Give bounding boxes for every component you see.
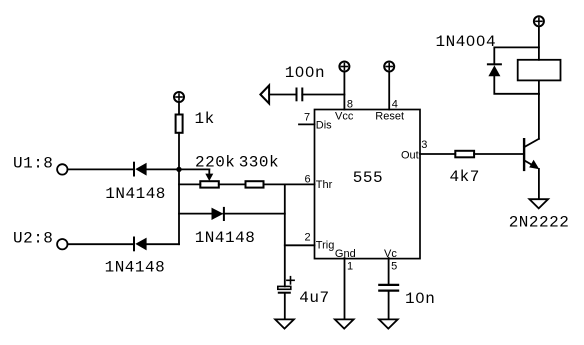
svg-text:1N4148: 1N4148 — [105, 259, 166, 277]
wire Q1 emitter to ground — [538, 169, 540, 199]
connector U2:8 terminal — [57, 239, 67, 249]
wire U2 row left of diode D2 — [179, 213, 211, 215]
wire vertical node A down to U2 row — [178, 169, 180, 244]
svg-text:8: 8 — [347, 99, 353, 111]
svg-text:4k7: 4k7 — [450, 168, 480, 186]
connector U1:8 terminal — [57, 164, 67, 174]
connector arrow input — [260, 85, 269, 103]
svg-text:Reset: Reset — [375, 111, 404, 123]
power symbol VCC2 — [339, 62, 349, 72]
wire D4 bottom — [494, 76, 539, 94]
wire pin 5 Vc to C3 — [388, 258, 390, 284]
svg-text:7: 7 — [304, 112, 310, 124]
wire pin 3 Out to 4k7 — [420, 153, 455, 155]
svg-text:U2:8: U2:8 — [13, 229, 53, 247]
wire D2 to vertical net — [224, 213, 285, 215]
svg-text:1N4148: 1N4148 — [105, 185, 166, 203]
svg-text:330k: 330k — [239, 153, 279, 171]
svg-text:3: 3 — [421, 139, 427, 151]
diode D4 1N4004 — [488, 64, 501, 76]
svg-text:Dis: Dis — [316, 120, 332, 132]
resistor 1k — [176, 115, 183, 133]
power symbol VCC1 — [174, 92, 184, 102]
svg-text:U1:8: U1:8 — [13, 155, 53, 173]
svg-text:Thr: Thr — [316, 179, 333, 191]
svg-text:1N4004: 1N4004 — [436, 33, 497, 51]
svg-text:Out: Out — [401, 150, 419, 162]
svg-text:4u7: 4u7 — [299, 289, 329, 307]
wire U1 input to diode D1 — [68, 168, 134, 170]
wire 4k7 to Q1 base — [474, 153, 523, 155]
ground GND2 — [529, 199, 548, 208]
diode D3 1N4148 — [134, 238, 147, 251]
ground GND1 — [275, 319, 294, 328]
diode D2 1N4148 — [212, 208, 224, 220]
power symbol VCC3 — [384, 62, 394, 72]
potentiometer 220k body — [200, 181, 219, 187]
diode D1 1N4148 — [134, 163, 147, 176]
wire D3 to vertical line corner — [147, 243, 179, 245]
glyph whiteout patches for plain zeros — [298, 39, 482, 300]
power symbol VCC4 — [534, 16, 544, 26]
wire relay top to VCC4 — [538, 27, 540, 60]
wire 1k to node A — [178, 133, 180, 170]
resistor 330k — [246, 181, 264, 187]
wire vertical net Thr/Trig x=284.8 — [284, 184, 286, 286]
wire 330k to pin 6 Thr — [264, 183, 315, 185]
wire Trig pin 2 — [285, 244, 315, 246]
wire VCC3 to pin 4 — [388, 72, 390, 109]
svg-text:1N4148: 1N4148 — [195, 229, 256, 247]
svg-text:2N2222: 2N2222 — [509, 214, 570, 232]
wire VCC2 to pin 8 — [343, 72, 345, 109]
svg-text:1: 1 — [347, 261, 353, 273]
wire C1 to ground — [284, 294, 286, 319]
potentiometer 220k wiper — [205, 169, 213, 181]
capacitor C3 10n — [379, 285, 398, 291]
wire relay bottom node — [538, 80, 540, 94]
wire pot to 330k — [219, 183, 246, 185]
wire C2 to Vcc net — [302, 94, 344, 96]
transistor Q1 2N2222 — [524, 139, 539, 170]
svg-text:Vcc: Vcc — [335, 111, 354, 123]
svg-text:1k: 1k — [195, 110, 215, 128]
wire to pot left — [179, 183, 200, 185]
svg-text:Trig: Trig — [316, 239, 335, 251]
wire arrow to C2 — [269, 94, 296, 96]
wire D1 to node A — [147, 168, 179, 170]
wire U2 input to diode D3 — [68, 243, 134, 245]
capacitor C1 4u7 polarized — [278, 277, 294, 294]
svg-text:2: 2 — [305, 232, 311, 244]
wire pin 1 Gnd to ground — [344, 258, 346, 319]
ground GND3 — [335, 319, 354, 328]
relay coil K1 — [518, 60, 561, 81]
svg-text:6: 6 — [305, 173, 311, 185]
capacitor C2 100n — [297, 89, 303, 101]
wire C3 to ground — [388, 291, 390, 319]
svg-text:5: 5 — [391, 261, 397, 273]
svg-text:4: 4 — [392, 99, 398, 111]
svg-text:555: 555 — [353, 169, 383, 187]
IC U3 555 box — [315, 110, 421, 259]
resistor 4k7 — [455, 151, 474, 158]
wire node A to wiper — [179, 168, 209, 170]
svg-text:220k: 220k — [195, 153, 235, 171]
svg-text:Vc: Vc — [384, 248, 397, 260]
wire Q1 collector to relay — [538, 94, 540, 139]
junction node A — [176, 167, 181, 172]
wire VCC1 to resistor 1k — [178, 103, 180, 115]
wire D4 top — [494, 47, 539, 64]
pin 7 stub — [299, 123, 315, 125]
ground GND4 — [379, 319, 398, 328]
svg-text:100n: 100n — [285, 64, 325, 82]
